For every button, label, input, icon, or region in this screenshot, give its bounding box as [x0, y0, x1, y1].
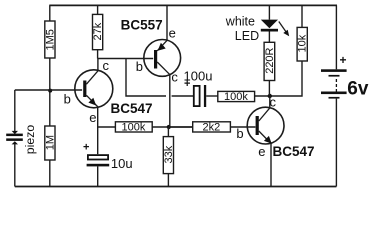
- svg-text:e: e: [89, 110, 96, 125]
- svg-text:e: e: [169, 26, 176, 41]
- wire drop from node to coupling row: [126, 59, 166, 97]
- svg-text:+: +: [340, 53, 347, 67]
- svg-text:100k: 100k: [224, 91, 248, 103]
- svg-text:2k2: 2k2: [203, 121, 221, 133]
- transistor Q2 BC557: [144, 40, 181, 77]
- transistor Q3 BC547: [247, 107, 284, 144]
- wire bottom ground rail: [15, 186, 337, 188]
- resistor R 100k upper: [218, 91, 255, 103]
- svg-text:c: c: [270, 95, 277, 110]
- wire 10u bottom lead: [97, 166, 99, 186]
- svg-text:LED: LED: [235, 29, 259, 43]
- svg-text:piezo: piezo: [23, 125, 37, 155]
- capacitor C 10u: [83, 141, 133, 171]
- svg-text:b: b: [236, 126, 243, 141]
- wire 220R bottom lead: [268, 81, 270, 97]
- svg-text:100u: 100u: [184, 68, 213, 83]
- svg-text:+: +: [83, 141, 89, 153]
- svg-text:100k: 100k: [122, 121, 146, 133]
- wire node Q1 collector to Q2 base: [98, 58, 154, 60]
- wire battery bottom lead: [335, 99, 337, 187]
- wire Q1 collector vertical: [97, 59, 99, 71]
- transistor Q1 BC547: [75, 70, 113, 108]
- wire 2k2 left lead: [168, 126, 192, 128]
- wire LED cathode to 220R: [268, 32, 270, 43]
- svg-text:10u: 10u: [111, 156, 133, 171]
- resistor R 1M5: [44, 21, 56, 58]
- wire 27k bottom lead: [97, 50, 99, 59]
- resistor R 10k: [297, 27, 309, 61]
- node junction Q3 collector / 220R / 10k: [268, 94, 272, 98]
- svg-text:33k: 33k: [163, 145, 175, 163]
- wire 33k top lead: [167, 127, 169, 137]
- piezo transducer: [6, 125, 37, 155]
- wire 100k lower to 2k2: [152, 126, 193, 128]
- wire battery top lead: [335, 5, 337, 69]
- svg-text:220R: 220R: [264, 47, 276, 73]
- capacitor C 100u: [184, 68, 213, 107]
- svg-text:BC547: BC547: [111, 101, 153, 116]
- wire LED anode lead: [268, 5, 270, 19]
- wire 100u to 100k upper: [206, 95, 218, 97]
- wire 1M5 bottom to node: [49, 58, 51, 126]
- wire piezo bottom lead: [14, 144, 16, 187]
- wire Q2 collector down to node: [169, 75, 171, 127]
- diode white LED: [261, 20, 289, 37]
- battery B1 6v: [321, 53, 369, 100]
- wire 10k top lead: [301, 5, 303, 27]
- resistor R 33k: [163, 137, 175, 174]
- wire 27k top lead: [97, 5, 99, 14]
- resistor R 27k: [92, 14, 104, 49]
- wire 1M5 top lead: [49, 5, 51, 21]
- svg-text:white: white: [225, 14, 255, 28]
- svg-text:b: b: [136, 59, 143, 74]
- resistor R 1M: [45, 126, 57, 160]
- resistor R 100k lower: [115, 121, 152, 133]
- wire Q1 emitter to 100k lower: [98, 126, 116, 128]
- node junction Q2 collector / 33k / 2k2: [167, 125, 171, 129]
- wire piezo top lead: [14, 90, 16, 131]
- node junction piezo/base/1M: [48, 89, 52, 93]
- svg-text:c: c: [103, 58, 110, 73]
- wire 2k2 to Q3 base: [230, 126, 255, 128]
- svg-text:BC547: BC547: [273, 144, 315, 159]
- svg-text:1M: 1M: [45, 135, 57, 150]
- wire top supply rail: [49, 4, 337, 6]
- wire 33k bottom lead: [167, 174, 169, 187]
- wire 1M bottom lead: [49, 160, 51, 187]
- svg-text:c: c: [171, 69, 178, 84]
- wire Q3 collector vertical: [269, 96, 271, 108]
- wire Q3 emitter vertical: [270, 143, 272, 186]
- wire 100k upper to 10k elbow: [255, 61, 302, 96]
- svg-text:10k: 10k: [297, 34, 309, 52]
- svg-text:27k: 27k: [92, 22, 104, 40]
- svg-text:6v: 6v: [347, 79, 369, 100]
- resistor R 2k2: [193, 121, 231, 133]
- svg-text:e: e: [258, 144, 265, 159]
- wire base line to Q1: [15, 89, 82, 91]
- svg-text:b: b: [64, 91, 71, 106]
- wire Q1 emitter vertical: [97, 106, 99, 154]
- svg-text:1M5: 1M5: [44, 29, 56, 50]
- wire Q2 emitter to rail: [166, 5, 168, 40]
- resistor R 220R: [264, 42, 276, 80]
- svg-text:BC557: BC557: [121, 18, 163, 33]
- wire coupling row right part (after crossover gap): [172, 95, 193, 97]
